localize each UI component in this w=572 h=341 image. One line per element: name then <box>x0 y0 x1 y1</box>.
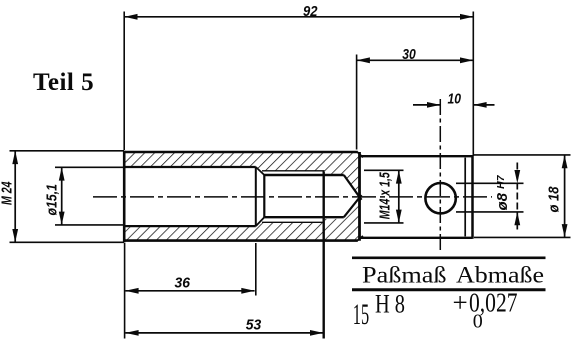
svg-text:10: 10 <box>448 90 462 107</box>
svg-text:0: 0 <box>473 311 483 333</box>
dimension M24 <box>0 151 124 243</box>
bore bottom line <box>124 225 256 227</box>
svg-text:53: 53 <box>246 317 262 334</box>
thread start face <box>263 175 265 217</box>
body right face <box>358 152 361 241</box>
thread major bottom thin line <box>262 221 325 223</box>
dimension 92 <box>124 3 473 156</box>
svg-text:+: + <box>453 287 468 317</box>
svg-text:Paßmaß: Paßmaß <box>362 263 447 288</box>
svg-text:ø15,1: ø15,1 <box>44 184 61 216</box>
body left face <box>123 151 126 242</box>
svg-text:ø8 H7: ø8 H7 <box>494 174 511 210</box>
thread entry chamfer top <box>256 167 264 175</box>
dimension ø18 <box>474 155 571 238</box>
bore step face <box>255 167 257 226</box>
svg-text:H 8: H 8 <box>375 289 405 318</box>
shaft end face <box>471 155 474 239</box>
svg-text:92: 92 <box>303 3 318 20</box>
thread entry chamfer bottom <box>256 217 264 226</box>
body top edge <box>123 151 358 154</box>
svg-text:Teil 5: Teil 5 <box>33 69 94 96</box>
dimension 30 <box>357 46 474 149</box>
fit table top rule <box>352 256 546 259</box>
vertical center line of cross hole <box>439 99 441 254</box>
drill cone bottom <box>344 195 362 217</box>
hatch bottom wall <box>124 197 360 240</box>
bore top line <box>124 166 256 168</box>
thread minor bottom line <box>264 216 344 218</box>
dimension ø8 H7 <box>456 163 524 230</box>
chamfer top right <box>357 152 363 157</box>
thread minor top line <box>264 174 344 176</box>
body bottom edge <box>123 239 358 242</box>
hatch top wall <box>124 153 360 198</box>
svg-text:30: 30 <box>402 46 416 63</box>
chamfer bottom right <box>357 236 363 241</box>
horizontal center line <box>93 196 492 198</box>
dimension ø15,1 <box>44 167 124 225</box>
dimension 53 <box>125 317 323 336</box>
dimension 10 <box>413 90 495 108</box>
drill cone top <box>344 175 362 200</box>
svg-text:M14 x 1,5: M14 x 1,5 <box>377 172 394 219</box>
svg-text:15: 15 <box>353 298 369 331</box>
dimension M14x1,5 <box>364 170 404 223</box>
svg-text:ø 18: ø 18 <box>546 186 563 213</box>
shaft bottom edge <box>361 237 473 239</box>
cross hole circle ø8 <box>425 183 455 213</box>
thread end line and 53 extension <box>323 172 325 339</box>
thread major top thin line <box>262 170 325 172</box>
svg-text:Abmaße: Abmaße <box>456 263 544 288</box>
svg-text:36: 36 <box>175 275 191 292</box>
svg-text:M 24: M 24 <box>0 181 16 205</box>
dimension 36 <box>125 243 256 339</box>
fit table middle rule <box>352 288 546 291</box>
shaft end chamfer line <box>464 158 466 237</box>
shaft top edge <box>361 155 473 157</box>
